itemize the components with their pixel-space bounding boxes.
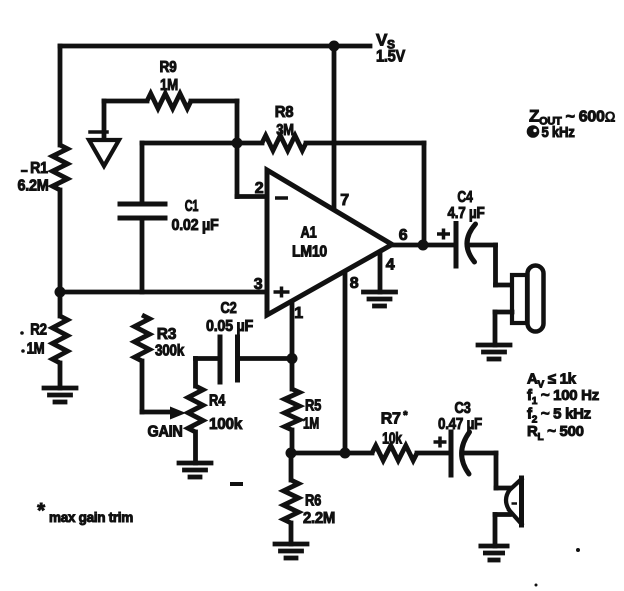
svg-text:C2: C2 bbox=[221, 300, 237, 317]
svg-text:R3: R3 bbox=[157, 326, 177, 343]
svg-text:4: 4 bbox=[386, 257, 395, 274]
svg-text:7: 7 bbox=[340, 192, 349, 209]
svg-text:5 kHz: 5 kHz bbox=[542, 124, 575, 141]
svg-text:RL ~ 500: RL ~ 500 bbox=[527, 423, 584, 443]
svg-text:1M: 1M bbox=[160, 77, 178, 94]
svg-text:LM10: LM10 bbox=[292, 244, 327, 261]
svg-text:3: 3 bbox=[254, 276, 263, 293]
svg-text:C4: C4 bbox=[457, 189, 473, 206]
svg-text:6.2M: 6.2M bbox=[18, 178, 49, 195]
svg-text:R7 *: R7 * bbox=[381, 410, 409, 428]
svg-text:8: 8 bbox=[350, 275, 359, 292]
svg-text:C3: C3 bbox=[454, 400, 470, 417]
svg-text:1.5V: 1.5V bbox=[376, 47, 406, 66]
svg-text:1: 1 bbox=[294, 305, 303, 322]
svg-text:R9: R9 bbox=[160, 59, 177, 76]
svg-text:GAIN: GAIN bbox=[148, 424, 183, 441]
svg-text:1M: 1M bbox=[27, 341, 45, 358]
svg-text:1M: 1M bbox=[303, 416, 319, 433]
svg-text:100k: 100k bbox=[209, 416, 242, 433]
svg-text:f1 ~ 100 Hz: f1 ~ 100 Hz bbox=[527, 387, 599, 407]
svg-text:2.2M: 2.2M bbox=[303, 510, 335, 527]
svg-text:0.05 µF: 0.05 µF bbox=[206, 318, 253, 335]
svg-text:4.7 µF: 4.7 µF bbox=[448, 205, 485, 222]
svg-text:6: 6 bbox=[399, 227, 408, 244]
svg-text:R4: R4 bbox=[209, 393, 225, 410]
svg-text:max gain trim: max gain trim bbox=[49, 510, 133, 525]
svg-text:R8: R8 bbox=[275, 104, 294, 121]
svg-text:R1: R1 bbox=[30, 160, 48, 177]
svg-text:A1: A1 bbox=[301, 225, 317, 242]
svg-text:R2: R2 bbox=[30, 322, 47, 339]
svg-text:2: 2 bbox=[255, 180, 264, 197]
svg-text:300k: 300k bbox=[155, 343, 184, 360]
svg-text:R5: R5 bbox=[305, 398, 321, 415]
svg-text:R6: R6 bbox=[305, 493, 321, 510]
svg-text:*: * bbox=[37, 500, 45, 522]
svg-text:10k: 10k bbox=[382, 431, 402, 448]
svg-text:3M: 3M bbox=[276, 122, 294, 139]
svg-text:0.02 µF: 0.02 µF bbox=[172, 217, 219, 234]
svg-text:0.47 µF: 0.47 µF bbox=[438, 416, 482, 433]
svg-text:C1: C1 bbox=[185, 198, 199, 215]
